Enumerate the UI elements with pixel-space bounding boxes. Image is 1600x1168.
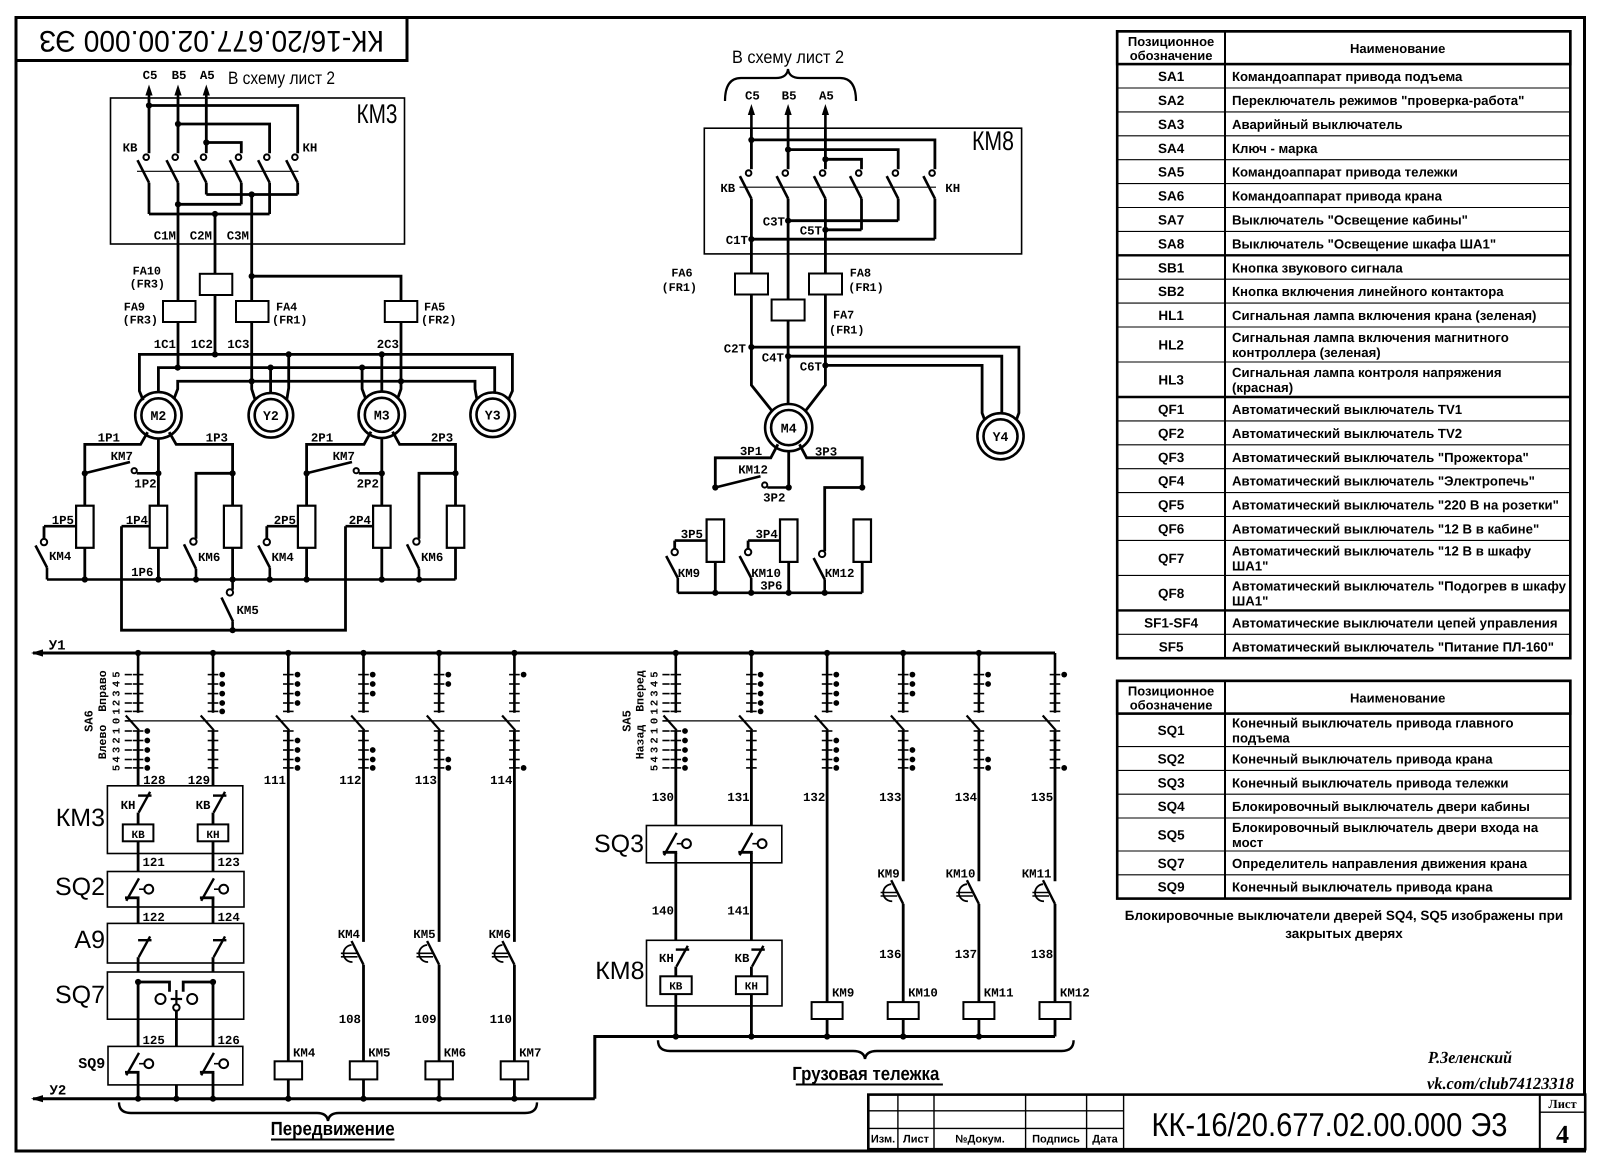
coil КН (KM3): [198, 824, 229, 841]
coil КН (KM8): [736, 976, 767, 994]
svg-text:131: 131: [727, 791, 749, 805]
svg-text:B5: B5: [782, 90, 797, 104]
controller SA6 contact column 3: [287, 653, 290, 713]
svg-text:обозначение: обозначение: [1130, 697, 1213, 712]
svg-text:A5: A5: [819, 90, 834, 104]
wire 1P1: [85, 432, 148, 506]
contact KM12 (horizontal): [712, 484, 718, 490]
wire KM8 coils to rail: [674, 994, 677, 1036]
svg-text:КМ4: КМ4: [272, 551, 295, 565]
svg-text:QF2: QF2: [1158, 426, 1184, 441]
KM3 contact 3: [201, 154, 207, 160]
svg-text:111: 111: [264, 774, 286, 788]
svg-text:SF5: SF5: [1159, 639, 1184, 654]
wire resistor bottoms group 3: [714, 562, 717, 593]
svg-text:А9: А9: [74, 926, 105, 954]
controller SA6 contact column 2: [212, 653, 215, 713]
svg-text:Наименование: Наименование: [1350, 41, 1445, 56]
svg-text:3: 3: [112, 747, 124, 753]
bus 1P6: [47, 578, 456, 581]
contact КМ9 (aux): [891, 880, 903, 904]
wire 1C1: [177, 322, 180, 368]
svg-text:КМ9: КМ9: [832, 987, 854, 1001]
controller SA5 contact column 2: [750, 653, 753, 713]
wire 125: [137, 982, 140, 1053]
svg-text:Командоаппарат привода подъема: Командоаппарат привода подъема: [1232, 69, 1463, 84]
relay FA7 (FR1): [772, 300, 805, 321]
wire 126: [212, 982, 215, 1053]
svg-text:2: 2: [112, 737, 124, 743]
arrow to sheet 2 (C5 middle): [750, 114, 753, 129]
controller SA6 contact column 4: [362, 653, 365, 713]
resistor 3P3: [854, 519, 872, 562]
svg-text:Определитель направления движе: Определитель направления движения крана: [1232, 856, 1528, 871]
svg-text:1P3: 1P3: [206, 432, 228, 446]
svg-text:КМ6: КМ6: [421, 551, 443, 565]
wire C2T to M4: [751, 347, 772, 411]
svg-text:2: 2: [112, 700, 124, 706]
svg-text:SA5: SA5: [1158, 165, 1185, 180]
svg-text:SA6: SA6: [1158, 189, 1185, 204]
svg-text:КК-16/20.677.02.00.000 ЭЗ: КК-16/20.677.02.00.000 ЭЗ: [39, 24, 384, 57]
wire C1M: [177, 204, 180, 301]
svg-text:Автоматический выключатель "Пр: Автоматический выключатель "Прожектора": [1232, 450, 1529, 465]
resistor 2P2 (2P4 tap): [373, 506, 391, 548]
controller SA6 scale labels: [125, 674, 132, 676]
svg-text:A5: A5: [200, 69, 215, 83]
svg-text:ША1": ША1": [1232, 558, 1268, 573]
svg-text:C2M: C2M: [190, 230, 212, 244]
svg-text:Подпись: Подпись: [1032, 1134, 1080, 1146]
wire 137: [978, 904, 981, 1003]
resistor 3P2 (3P4 tap): [780, 519, 798, 562]
svg-text:Дата: Дата: [1092, 1134, 1118, 1146]
motor Y3: [470, 393, 515, 438]
svg-text:2P2: 2P2: [357, 478, 379, 492]
wire 140: [674, 853, 677, 950]
svg-text:КН: КН: [659, 952, 674, 966]
KM8 contact 4: [856, 170, 862, 176]
KM3 contact 1: [143, 154, 149, 160]
wire resistor bottoms group 1: [83, 548, 86, 580]
svg-text:№Докум.: №Докум.: [955, 1134, 1005, 1146]
wire 110: [513, 965, 516, 1062]
drop to M3 upper-right: [398, 381, 401, 398]
svg-text:SQ2: SQ2: [55, 873, 105, 901]
svg-text:КМ6: КМ6: [489, 928, 511, 942]
svg-text:Конечный выключатель привода т: Конечный выключатель привода тележки: [1232, 775, 1508, 790]
svg-text:SB2: SB2: [1158, 284, 1184, 299]
controller SA6 contact column 6: [513, 653, 516, 713]
svg-text:108: 108: [339, 1013, 361, 1027]
svg-text:Ключ - марка: Ключ - марка: [1232, 141, 1318, 156]
svg-text:КН: КН: [303, 142, 318, 156]
svg-text:Автоматический выключатель TV2: Автоматический выключатель TV2: [1232, 426, 1462, 441]
coil KM6: [425, 1061, 453, 1079]
svg-text:FA7: FA7: [833, 309, 854, 323]
relay A9 box: [107, 923, 243, 963]
svg-text:C2T: C2T: [724, 342, 747, 356]
controller SA5 contact column 5: [978, 653, 981, 713]
svg-text:3: 3: [649, 690, 661, 696]
svg-text:SQ3: SQ3: [594, 830, 644, 858]
svg-text:FA5: FA5: [424, 301, 445, 315]
svg-text:1P2: 1P2: [134, 478, 156, 492]
svg-text:Автоматический выключатель TV1: Автоматический выключатель TV1: [1232, 402, 1462, 417]
contact КМ11 (aux): [1043, 880, 1055, 904]
wire 2C3 branch: [249, 273, 255, 279]
svg-text:КМ4: КМ4: [338, 928, 361, 942]
svg-text:Автоматические выключатели цеп: Автоматические выключатели цепей управле…: [1232, 615, 1558, 630]
limit switch SQ3 box: [646, 826, 781, 863]
title block: [868, 1095, 1585, 1150]
contact KM6 (group 1): [190, 538, 196, 544]
contactor KM3 control box: [107, 786, 242, 854]
svg-text:1C3: 1C3: [227, 338, 249, 352]
KM3 contact 6: [292, 154, 298, 160]
branch 2P3 to KM6: [452, 470, 458, 476]
svg-text:1C2: 1C2: [191, 338, 213, 352]
svg-text:Y3: Y3: [485, 409, 501, 424]
svg-text:ША1": ША1": [1232, 593, 1268, 608]
wire A5 crossover (KM8): [822, 156, 828, 162]
coil КВ (KM3): [123, 824, 154, 841]
wire 1P3: [169, 432, 232, 506]
relay FA4 (FR1): [236, 301, 269, 322]
controller SA5 contact column 4: [902, 653, 905, 713]
coil KM10: [888, 1002, 919, 1019]
wire C4T: [787, 321, 790, 357]
svg-text:SA2: SA2: [1158, 93, 1184, 108]
arrow to sheet 2 (B5 left): [177, 93, 180, 98]
svg-text:1P6: 1P6: [131, 566, 153, 580]
coil KM7: [501, 1061, 529, 1079]
svg-text:SQ9: SQ9: [78, 1056, 105, 1073]
drop to Y2 upper-left: [252, 381, 255, 399]
svg-text:КМ11: КМ11: [1022, 868, 1052, 882]
svg-text:Назад: Назад: [635, 725, 648, 760]
svg-text:SQ9: SQ9: [1158, 880, 1185, 895]
svg-text:(FR1): (FR1): [829, 324, 864, 338]
wire 1P2: [157, 439, 160, 506]
wire B5 top crossover: [175, 121, 181, 127]
KM3 linkage line: [137, 170, 299, 172]
svg-text:2P3: 2P3: [431, 432, 453, 446]
wire 129 upper: [212, 730, 215, 792]
wire C2M: [214, 214, 217, 274]
svg-text:M4: M4: [781, 421, 797, 436]
component table 2: [1117, 681, 1570, 714]
svg-text:Вправо: Вправо: [97, 670, 110, 712]
bus phase 3: [174, 381, 477, 399]
svg-text:109: 109: [414, 1013, 436, 1027]
svg-text:мост: мост: [1232, 835, 1264, 850]
contact SQ3 right: [740, 833, 753, 855]
controller SA6 contact column 5: [438, 653, 441, 713]
contact КВ in KM8 box: [751, 948, 764, 950]
svg-text:1: 1: [649, 708, 661, 714]
svg-text:КМ4: КМ4: [49, 550, 72, 564]
svg-text:КМ12: КМ12: [738, 464, 768, 478]
svg-text:FA8: FA8: [850, 267, 871, 281]
bus У1: [33, 652, 1055, 655]
branch 3P3 to KM12 vertical: [859, 484, 865, 490]
svg-text:КМ10: КМ10: [908, 987, 938, 1001]
svg-text:M2: M2: [150, 409, 166, 424]
coil KM4: [275, 1061, 303, 1079]
relay FA10 (FR3): [200, 274, 233, 295]
svg-text:123: 123: [218, 856, 240, 870]
svg-text:КВ: КВ: [131, 830, 145, 842]
svg-text:Кнопка включения линейного кон: Кнопка включения линейного контактора: [1232, 284, 1504, 299]
svg-text:обозначение: обозначение: [1130, 48, 1213, 63]
svg-text:C1T: C1T: [726, 234, 749, 248]
brace over C5 B5 A5: [725, 69, 856, 101]
svg-text:Лист: Лист: [1548, 1097, 1576, 1111]
svg-text:контроллера (зеленая): контроллера (зеленая): [1232, 345, 1381, 360]
svg-text:КМ5: КМ5: [237, 604, 259, 618]
svg-text:В схему лист 2: В схему лист 2: [228, 68, 335, 88]
svg-text:(FR1): (FR1): [272, 314, 307, 328]
contact SQ9 right: [201, 1053, 214, 1075]
svg-text:Автоматический выключатель "Эл: Автоматический выключатель "Электропечь": [1232, 474, 1535, 489]
svg-text:КМ9: КМ9: [678, 567, 700, 581]
svg-text:QF4: QF4: [1158, 474, 1185, 489]
wire 113 upper: [438, 730, 441, 942]
svg-text:vk.com/club74123318: vk.com/club74123318: [1427, 1074, 1574, 1093]
contact KM6 (group 2): [413, 538, 419, 544]
svg-text:Блокировочные выключатели двер: Блокировочные выключатели дверей SQ4, SQ…: [1125, 908, 1563, 923]
coil KM9: [812, 1002, 843, 1019]
arrow to sheet 2 (A5 left): [205, 93, 208, 98]
wire 112 upper: [362, 730, 365, 942]
svg-text:КВ: КВ: [123, 142, 138, 156]
svg-text:C5T: C5T: [800, 224, 823, 238]
contact SQ9 left: [126, 1053, 139, 1075]
svg-text:SQ1: SQ1: [1158, 723, 1186, 738]
svg-text:КМ3: КМ3: [56, 804, 105, 832]
wire 3P1: [715, 444, 778, 487]
svg-text:SB1: SB1: [1158, 260, 1185, 275]
svg-text:Автоматический выключатель "По: Автоматический выключатель "Подогрев в ш…: [1232, 578, 1567, 593]
wire C5 top crossover: [146, 102, 152, 108]
brace Передвижение: [119, 1102, 537, 1121]
wire SQ7 common to У2: [175, 1011, 178, 1099]
svg-text:4: 4: [649, 756, 661, 762]
svg-text:FA6: FA6: [671, 267, 692, 281]
relay FA5 (FR2): [385, 301, 418, 322]
svg-text:(красная): (красная): [1232, 380, 1293, 395]
wire 128 upper: [137, 730, 140, 792]
contactor KM8 box: [704, 128, 1021, 254]
svg-text:Сигнальная лампа включения кра: Сигнальная лампа включения крана (зелена…: [1232, 308, 1536, 323]
contact KM7 (group 2): [304, 470, 310, 476]
svg-text:Позиционное: Позиционное: [1128, 34, 1214, 49]
resistor 3P1 (3P5 tap): [707, 519, 725, 562]
svg-text:M3: M3: [374, 409, 390, 424]
contact КВ in KM3 box: [213, 794, 226, 796]
svg-text:114: 114: [490, 774, 513, 788]
svg-text:КМ9: КМ9: [877, 868, 899, 882]
svg-text:SQ5: SQ5: [1158, 828, 1186, 843]
svg-text:5: 5: [112, 765, 124, 771]
svg-text:(FR1): (FR1): [662, 281, 697, 295]
bus 3P6: [678, 591, 862, 594]
motor M2: [135, 392, 181, 438]
svg-text:HL3: HL3: [1158, 373, 1184, 388]
limit switch SQ2 box: [107, 872, 244, 908]
bus У2: [33, 1097, 595, 1100]
contact SQ3 left: [664, 833, 677, 855]
motor Y4: [977, 413, 1023, 459]
controller SA5 contact column 1: [674, 653, 677, 713]
relay FA8 (FR1): [809, 274, 842, 295]
resistor 2P1 (2P5 tap): [298, 506, 316, 548]
wire C3M: [250, 195, 253, 302]
wire node C3T: [787, 199, 790, 221]
svg-text:Влево: Влево: [97, 725, 110, 760]
component table 1: [1117, 31, 1570, 64]
controller SA5 contact column 3: [826, 653, 829, 713]
svg-text:Позиционное: Позиционное: [1128, 683, 1214, 698]
svg-text:2P1: 2P1: [311, 432, 333, 446]
wire 108: [362, 965, 365, 1062]
svg-text:SQ7: SQ7: [55, 981, 105, 1009]
contact KM10 (rotor): [747, 541, 750, 550]
wire 141: [750, 853, 753, 950]
svg-text:КМ8: КМ8: [972, 126, 1014, 156]
direction switch SQ7 box: [107, 972, 243, 1019]
svg-text:HL2: HL2: [1158, 338, 1184, 353]
svg-text:SA8: SA8: [1158, 236, 1185, 251]
svg-text:КМ8: КМ8: [595, 957, 644, 985]
svg-text:Блокировочный выключатель двер: Блокировочный выключатель двери кабины: [1232, 799, 1530, 814]
svg-text:132: 132: [803, 791, 825, 805]
svg-text:Автоматический выключатель "Пи: Автоматический выключатель "Питание ПЛ-1…: [1232, 639, 1554, 654]
svg-text:4: 4: [649, 681, 661, 687]
wire C5T to FA8: [824, 230, 827, 274]
svg-text:5: 5: [112, 671, 124, 677]
drop to Y2 upper-right: [287, 354, 289, 399]
svg-text:КН: КН: [745, 981, 758, 993]
svg-text:112: 112: [339, 774, 361, 788]
svg-text:2: 2: [649, 700, 661, 706]
svg-text:КК-16/20.677.02.00.000 Э3: КК-16/20.677.02.00.000 Э3: [1152, 1106, 1508, 1143]
KM8 contact 3: [820, 170, 826, 176]
wire B5 crossover (KM8): [785, 147, 791, 153]
contact SQ2 right: [201, 878, 214, 900]
svg-text:135: 135: [1031, 791, 1053, 805]
branch 1P3 to KM6: [230, 470, 236, 476]
svg-text:B5: B5: [172, 69, 187, 83]
svg-text:1: 1: [112, 728, 124, 734]
wire node C1T: [750, 199, 753, 240]
svg-text:КМ5: КМ5: [368, 1047, 390, 1061]
contact КМ4 (aux): [352, 941, 364, 965]
contact КМ10 (aux): [967, 880, 979, 904]
drop to M3 top: [380, 354, 383, 391]
svg-text:Лист: Лист: [903, 1134, 930, 1146]
KM8 contact 5: [893, 170, 899, 176]
svg-text:3P1: 3P1: [740, 445, 762, 459]
coil KM12: [1040, 1002, 1071, 1019]
motor M4: [765, 404, 812, 451]
resistor 1P1: [76, 506, 94, 548]
drop to M3 upper-left: [362, 368, 366, 399]
svg-text:SA1: SA1: [1158, 69, 1185, 84]
contact KM5 and equalizer wire: [231, 580, 234, 590]
controller SA6 linkage line: [126, 720, 520, 722]
svg-text:2: 2: [649, 737, 661, 743]
svg-text:113: 113: [415, 774, 437, 788]
svg-text:0: 0: [649, 718, 661, 724]
svg-text:134: 134: [955, 791, 978, 805]
wire node C1M collector: [177, 183, 180, 205]
KM8 contact 1: [746, 170, 752, 176]
svg-text:FA9: FA9: [124, 301, 145, 315]
svg-text:C1M: C1M: [154, 230, 176, 244]
wire C4T to M4: [787, 356, 790, 404]
svg-text:HL1: HL1: [1158, 308, 1184, 323]
svg-text:Конечный выключатель привода к: Конечный выключатель привода крана: [1232, 752, 1493, 767]
svg-text:КН: КН: [206, 830, 219, 842]
wire 136: [902, 904, 905, 1003]
svg-text:1: 1: [112, 708, 124, 714]
svg-text:Автоматический выключатель "22: Автоматический выключатель "220 В на роз…: [1232, 498, 1559, 513]
contactor KM8 control box: [647, 940, 783, 1006]
svg-text:QF7: QF7: [1158, 551, 1184, 566]
svg-text:(FR2): (FR2): [421, 314, 456, 328]
wire 135 upper: [1054, 730, 1057, 881]
svg-text:4: 4: [1556, 1120, 1569, 1149]
svg-text:Автоматический выключатель "12: Автоматический выключатель "12 В в кабин…: [1232, 521, 1539, 536]
KM3 contact 2: [172, 154, 178, 160]
svg-text:КН: КН: [121, 799, 136, 813]
svg-text:137: 137: [955, 948, 977, 962]
arrow to sheet 2 (A5 middle): [824, 114, 827, 129]
svg-text:SA4: SA4: [1158, 141, 1185, 156]
controller SA6 contact column 1: [137, 653, 140, 713]
contact КМ6 (aux): [502, 941, 514, 965]
svg-text:Выключатель "Освещение кабины": Выключатель "Освещение кабины": [1232, 212, 1468, 227]
svg-text:3P2: 3P2: [763, 492, 785, 506]
controller SA5 linkage line: [664, 720, 1061, 722]
bus phase 2: [158, 368, 494, 393]
wire 2P1: [307, 432, 371, 506]
svg-text:Y2: Y2: [263, 409, 279, 424]
svg-text:В схему лист 2: В схему лист 2: [732, 47, 844, 67]
SQ7 internals: [135, 979, 141, 985]
wire node C2M collector: [148, 183, 151, 214]
svg-text:КН: КН: [945, 182, 960, 196]
wire 131 upper: [750, 730, 753, 833]
svg-text:Сигнальная лампа включения маг: Сигнальная лампа включения магнитного: [1232, 330, 1509, 345]
svg-text:(FR3): (FR3): [123, 314, 158, 328]
wire C1T to FA6: [750, 239, 753, 273]
svg-text:130: 130: [652, 791, 674, 805]
contact KM9 (rotor): [673, 541, 676, 550]
svg-text:Вперед: Вперед: [635, 670, 648, 712]
svg-text:136: 136: [879, 948, 901, 962]
svg-text:QF6: QF6: [1158, 521, 1185, 536]
motor Y2: [249, 393, 294, 438]
contact KM4 (group 2): [265, 526, 268, 539]
svg-text:1C1: 1C1: [154, 338, 176, 352]
svg-text:(FR1): (FR1): [848, 281, 883, 295]
controller SA5 scale labels: [662, 674, 669, 676]
svg-text:Командоаппарат привода тележки: Командоаппарат привода тележки: [1232, 165, 1458, 180]
svg-text:140: 140: [652, 905, 674, 919]
